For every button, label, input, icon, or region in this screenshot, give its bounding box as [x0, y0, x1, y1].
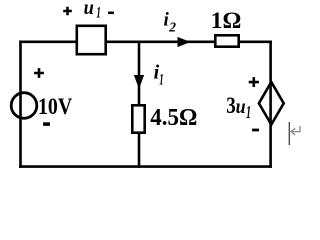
current arrow i2 (right)	[178, 38, 189, 47]
svg-text:1: 1	[246, 102, 251, 122]
svg-text:1: 1	[96, 5, 101, 22]
minus sign of 10V	[43, 122, 50, 126]
pilcrow return mark (gray)	[291, 126, 300, 135]
resistor 4.5 ohm (middle vertical box)	[132, 105, 144, 132]
minus sign of 3u1 source	[252, 129, 259, 132]
voltage source 10V (circle)	[11, 93, 37, 119]
svg-text:2: 2	[168, 20, 176, 35]
svg-text:4.5Ω: 4.5Ω	[150, 104, 197, 131]
wire: middle vertical branch	[138, 41, 141, 168]
resistor 1 ohm (top-right box)	[215, 35, 238, 46]
svg-text:10V: 10V	[38, 94, 73, 119]
plus sign of u1	[63, 7, 72, 16]
wire: top horizontal	[19, 40, 272, 43]
svg-text:3: 3	[226, 93, 236, 118]
svg-text:1: 1	[159, 72, 163, 89]
plus sign of 3u1 source	[249, 77, 259, 87]
resistor R_u1 (top-left box)	[77, 26, 106, 54]
minus sign of u1	[108, 12, 114, 15]
dependent source 3u1 (diamond)	[259, 82, 284, 125]
current arrow i1 (down)	[135, 76, 144, 88]
wire: bottom horizontal	[19, 165, 272, 168]
svg-text:u: u	[236, 96, 246, 118]
svg-text:u: u	[84, 0, 94, 19]
wire: right vertical	[269, 41, 272, 168]
plus sign of 10V	[34, 68, 44, 78]
text cursor caret (gray)	[288, 122, 290, 145]
svg-text:1Ω: 1Ω	[211, 8, 242, 33]
wire: left vertical	[19, 41, 22, 168]
